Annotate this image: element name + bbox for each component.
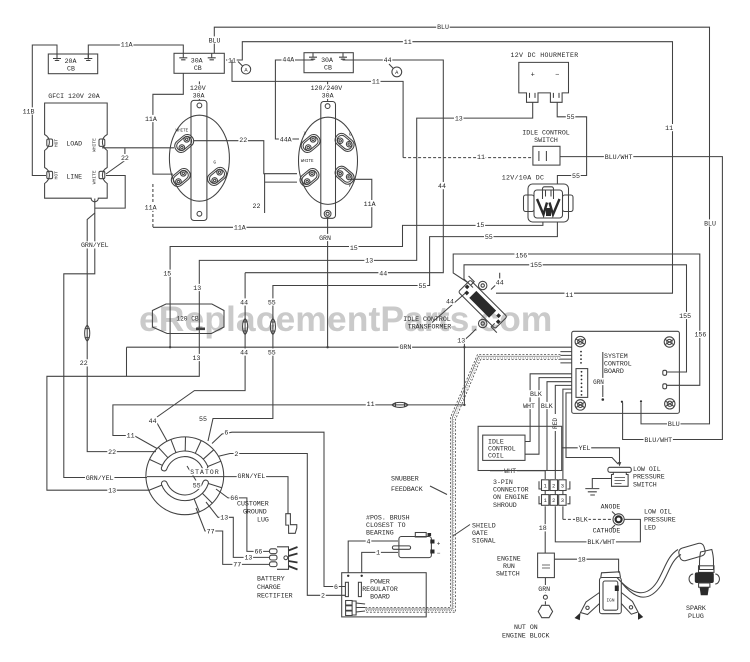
svg-text:BLU: BLU	[209, 37, 221, 44]
label 13	[192, 354, 202, 362]
svg-text:13: 13	[220, 515, 228, 522]
label 66	[229, 494, 239, 502]
svg-text:11: 11	[404, 39, 412, 46]
wire (board to 3-pin connector pin3)	[563, 389, 572, 479]
nut on engine block	[538, 605, 552, 617]
label 22	[120, 154, 130, 162]
wire BLK (3-pin to LED anode)	[563, 506, 613, 519]
wire 44 (transformer left lead)	[432, 293, 466, 323]
wire 55 (hourmeter to 12V/10A DC)	[557, 102, 586, 184]
svg-text:BLU/WHT: BLU/WHT	[605, 154, 633, 161]
svg-text:11A: 11A	[145, 205, 157, 212]
label 44A	[282, 56, 296, 64]
svg-text:55: 55	[268, 299, 276, 306]
svg-text:CHARGE: CHARGE	[257, 584, 281, 591]
wire GRN/YEL (GFCI ground down-left)	[64, 199, 147, 478]
svg-text:30A: 30A	[191, 58, 203, 65]
wire BLK/WHT (3-pin to LED cathode)	[555, 506, 640, 542]
3-pin connector on engine shroud	[539, 480, 570, 506]
wire 22 (GFCI line loop)	[95, 176, 125, 209]
label 55 (stator lead)	[192, 482, 202, 490]
label GRN/YEL	[80, 241, 109, 249]
receptacle 120/240V 30A	[298, 102, 358, 219]
wire 18 (3-pin to engine run switch)	[544, 506, 546, 553]
wire GRN (bus to system control board)	[127, 347, 572, 376]
wire (R2 strap feed)	[327, 81, 329, 101]
ground symbol	[585, 489, 599, 495]
svg-text:13: 13	[193, 285, 201, 292]
hourmeter 12V DC	[519, 62, 569, 102]
label 6	[333, 583, 339, 591]
svg-text:−: −	[437, 550, 441, 557]
svg-text:LED: LED	[644, 525, 656, 532]
svg-text:4: 4	[367, 538, 371, 545]
spark plug wire	[617, 550, 681, 598]
svg-text:55: 55	[572, 173, 580, 180]
wire RED (board to 3-pin connector pin2)	[555, 385, 571, 479]
label BLU/WHT	[604, 153, 633, 161]
svg-text:CONTROL: CONTROL	[488, 446, 516, 453]
svg-text:1: 1	[544, 498, 547, 504]
svg-text:STATOR: STATOR	[190, 469, 220, 476]
label 155	[529, 261, 543, 269]
label CUSTOMER GROUND LUG	[237, 501, 269, 524]
svg-text:13: 13	[365, 258, 373, 265]
svg-text:CONTROL: CONTROL	[604, 361, 632, 368]
svg-text:WHITE: WHITE	[301, 160, 314, 164]
label WHT	[503, 467, 517, 475]
svg-text:18: 18	[539, 525, 547, 532]
svg-text:BLU/WHT: BLU/WHT	[644, 437, 672, 444]
svg-text:WHT: WHT	[504, 468, 516, 475]
svg-text:CLOSEST TO: CLOSEST TO	[366, 522, 406, 529]
receptacle 120V 30A	[169, 100, 229, 220]
label 44	[239, 349, 249, 357]
label BLK	[575, 516, 589, 524]
label 13	[219, 514, 229, 522]
label 156	[694, 331, 708, 339]
customer ground lug	[286, 514, 297, 534]
svg-text:156: 156	[694, 332, 706, 339]
svg-text:IDLE CONTROL: IDLE CONTROL	[522, 130, 570, 137]
svg-text:BLK: BLK	[541, 403, 553, 410]
svg-text:55: 55	[567, 114, 575, 121]
wire 44 (to stator)	[157, 273, 245, 441]
svg-text:SYSTEM: SYSTEM	[604, 353, 628, 360]
label 13	[107, 487, 117, 495]
label SPARK PLUG	[686, 605, 706, 620]
svg-text:55: 55	[199, 416, 207, 423]
svg-text:CATHODE: CATHODE	[593, 528, 621, 535]
svg-text:15: 15	[163, 271, 171, 278]
svg-text:RECTIFIER: RECTIFIER	[257, 593, 293, 600]
wire BLK (board to idle control coil)	[525, 374, 572, 442]
label 15	[163, 270, 173, 278]
svg-text:15: 15	[476, 222, 484, 229]
wire 13 (hourmeter to 120CB to stator)	[47, 102, 533, 490]
label 13	[454, 115, 464, 123]
wire (3-pin connector interconnects)	[545, 491, 563, 495]
label NUT ON ENGINE BLOCK	[502, 624, 550, 640]
stator	[146, 437, 224, 515]
wire YEL (coil box to low oil switch)	[562, 448, 622, 467]
svg-text:11A: 11A	[121, 42, 133, 49]
svg-text:LOW OIL: LOW OIL	[633, 466, 661, 473]
junction dots	[169, 346, 466, 406]
svg-text:IGN: IGN	[607, 599, 615, 604]
wire 22 (R1 white to R2)	[194, 141, 297, 174]
label 22	[79, 359, 89, 367]
label BLU	[208, 36, 222, 44]
svg-text:BOARD: BOARD	[370, 594, 390, 601]
svg-text:+: +	[437, 541, 441, 548]
svg-text:BLK/WHT: BLK/WHT	[587, 539, 615, 546]
svg-text:BATTERY: BATTERY	[257, 576, 285, 583]
svg-text:−: −	[555, 72, 559, 80]
svg-text:12V DC HOURMETER: 12V DC HOURMETER	[510, 52, 578, 59]
svg-text:CB: CB	[67, 66, 75, 73]
svg-text:11: 11	[665, 125, 673, 132]
svg-text:30A: 30A	[193, 93, 205, 100]
svg-text:GFCI 120V 20A: GFCI 120V 20A	[48, 93, 99, 100]
svg-text:22: 22	[121, 155, 129, 162]
label 44	[378, 269, 388, 277]
svg-text:3: 3	[561, 483, 564, 489]
svg-text:BOARD: BOARD	[604, 368, 624, 375]
circuit breaker 20A CB	[48, 54, 97, 74]
engine run switch	[538, 553, 555, 578]
label 11	[227, 56, 237, 64]
label 77	[206, 527, 216, 535]
wire GFCI white-load to R1	[102, 147, 174, 149]
svg-text:ENGINE: ENGINE	[497, 556, 521, 563]
svg-text:3-PIN: 3-PIN	[493, 479, 513, 486]
svg-text:WHITE: WHITE	[176, 129, 189, 133]
wire 11A (R2 Y terminal to bottom run)	[352, 179, 372, 227]
svg-text:LOAD: LOAD	[66, 141, 82, 148]
svg-text:120/240V: 120/240V	[311, 85, 343, 92]
label 11B	[22, 107, 36, 115]
wire 4 (brush to power regulator board)	[348, 541, 398, 573]
label SNUBBER FEEDBACK	[391, 476, 447, 495]
label 120/240V 30A	[310, 84, 343, 99]
wire 44A (CB2 to R2)	[275, 59, 313, 140]
svg-text:11A: 11A	[234, 225, 246, 232]
ignition coil	[575, 572, 644, 621]
svg-text:GRN: GRN	[399, 344, 411, 351]
svg-text:2: 2	[552, 498, 555, 504]
svg-text:ENGINE BLOCK: ENGINE BLOCK	[502, 633, 550, 640]
svg-text:44A: 44A	[282, 57, 294, 64]
svg-text:COIL: COIL	[488, 453, 504, 460]
svg-text:BEARING: BEARING	[366, 530, 394, 537]
svg-text:44: 44	[240, 349, 248, 356]
label 3-PIN CONNECTOR ON ENGINE SHROUD	[493, 479, 529, 509]
ammeter A1	[238, 62, 251, 75]
label 44	[495, 278, 505, 286]
svg-text:X: X	[304, 131, 307, 137]
idle control transformer	[454, 276, 511, 333]
wire 13 (transformer bottom to GRN bus)	[464, 329, 476, 405]
idle control switch	[533, 146, 560, 165]
label 44	[383, 56, 393, 64]
wire 18 (engine run switch to ignition coil)	[554, 559, 618, 573]
svg-text:G: G	[213, 160, 216, 166]
wire 66 (stator to battery charge rectifier)	[216, 489, 270, 551]
wire 11B (20A CB to GFCI LINE)	[32, 45, 57, 176]
label 22	[252, 202, 262, 210]
svg-text:11: 11	[127, 432, 135, 439]
svg-text:22: 22	[239, 137, 247, 144]
label 44	[239, 298, 249, 306]
svg-text:11: 11	[367, 401, 375, 408]
wire 13 (stator to battery charge rectifier)	[206, 502, 270, 557]
wire 22 (GFCI line to node)	[106, 148, 125, 174]
svg-text:SHROUD: SHROUD	[493, 502, 517, 509]
svg-text:18: 18	[578, 557, 586, 564]
wire GRN (engine run switch to nut)	[544, 578, 546, 605]
label 11	[126, 432, 136, 440]
connector (wire 55 inline)	[270, 319, 275, 335]
svg-text:BLU: BLU	[704, 220, 716, 227]
svg-text:WHT: WHT	[523, 403, 535, 410]
svg-text:HOT: HOT	[54, 139, 60, 148]
svg-text:22: 22	[108, 449, 116, 456]
svg-text:PRESSURE: PRESSURE	[633, 474, 665, 481]
label 55	[418, 282, 428, 290]
label 12V DC HOURMETER	[510, 52, 578, 59]
label 18	[577, 556, 587, 564]
svg-text:BLU: BLU	[437, 24, 449, 31]
ammeter A2	[389, 64, 402, 77]
svg-text:77: 77	[207, 528, 215, 535]
svg-text:GRN: GRN	[319, 235, 331, 242]
wire 11 (stator to transformer, inline connector)	[113, 405, 465, 449]
label BLK	[529, 390, 543, 398]
label #POS. BRUSH CLOSEST TO BEARING	[366, 515, 410, 537]
svg-text:1: 1	[376, 550, 380, 557]
label BLK	[540, 402, 554, 410]
svg-text:SWITCH: SWITCH	[496, 571, 520, 578]
svg-text:55: 55	[485, 234, 493, 241]
svg-text:55: 55	[268, 349, 276, 356]
label BLU	[436, 23, 450, 31]
svg-text:15: 15	[350, 245, 358, 252]
label 155	[678, 312, 692, 320]
battery charge rectifier	[270, 547, 298, 570]
connector (wire 22 inline)	[85, 325, 90, 341]
svg-text:PLUG: PLUG	[688, 613, 704, 620]
svg-text:11: 11	[477, 154, 485, 161]
svg-text:66: 66	[254, 549, 262, 556]
svg-text:30A: 30A	[321, 57, 333, 64]
wire 11 (ammeter run to idle control switch)	[232, 60, 533, 158]
label 55	[198, 415, 208, 423]
svg-text:SHIELD: SHIELD	[472, 523, 496, 530]
label STATOR	[189, 468, 220, 476]
svg-text:YEL: YEL	[579, 445, 591, 452]
label 2	[320, 592, 326, 600]
svg-text:FEEDBACK: FEEDBACK	[391, 486, 423, 493]
wire 11A (CB1 to receptacle R1)	[153, 73, 183, 174]
label 44	[445, 298, 455, 306]
shield (dashed boundary)	[365, 355, 560, 613]
wire GRN (R2 ground down)	[327, 218, 329, 348]
svg-text:BLK: BLK	[576, 517, 588, 524]
power regulator board	[342, 573, 427, 617]
label 55	[571, 172, 581, 180]
wire 2 (stator to power regulator board)	[219, 454, 346, 596]
svg-text:GRN: GRN	[538, 586, 550, 593]
svg-text:#POS. BRUSH: #POS. BRUSH	[366, 515, 410, 522]
label GRN	[399, 343, 413, 351]
wire 1 (brush to power regulator board)	[362, 552, 398, 573]
svg-text:RED: RED	[552, 418, 559, 429]
svg-text:SWITCH: SWITCH	[534, 137, 558, 144]
label 2	[234, 450, 240, 458]
receptacle 12V/10A DC	[524, 184, 574, 222]
label POWER REGULATOR BOARD	[362, 579, 398, 601]
svg-text:REGULATOR: REGULATOR	[362, 586, 398, 593]
label LOW OIL PRESSURE LED	[644, 509, 676, 532]
svg-text:44: 44	[496, 279, 504, 286]
label 55	[484, 233, 494, 241]
connector (wire 44 inline)	[243, 319, 248, 335]
brush assembly	[392, 533, 440, 558]
label GFCI 120V 20A	[48, 93, 99, 100]
svg-text:12V/10A DC: 12V/10A DC	[502, 175, 545, 182]
wire 44 (CB2 down to 44 run)	[245, 59, 443, 273]
svg-text:NUT ON: NUT ON	[514, 624, 538, 631]
label 1	[375, 549, 381, 557]
svg-text:44: 44	[438, 183, 446, 190]
svg-text:156: 156	[515, 253, 527, 260]
svg-text:44: 44	[379, 270, 387, 277]
svg-text:44: 44	[149, 418, 157, 425]
svg-text:GRN: GRN	[593, 379, 604, 386]
svg-text:13: 13	[455, 115, 463, 122]
wire 11 (CB1 to idle control transformer)	[226, 42, 673, 294]
connector (wire 11 inline)	[392, 402, 408, 407]
label RED	[551, 414, 559, 431]
label 22	[238, 136, 248, 144]
svg-text:13: 13	[244, 555, 252, 562]
wire 11A top (20A CB to 30A CB1)	[88, 45, 183, 60]
svg-text:IDLE: IDLE	[488, 439, 504, 446]
label 11A	[144, 204, 158, 212]
label 6	[224, 429, 230, 437]
svg-text:SPARK: SPARK	[686, 605, 706, 612]
label 44A	[279, 135, 293, 143]
wire (switch to ground)	[592, 479, 611, 489]
svg-text:6: 6	[224, 430, 228, 437]
svg-text:LUG: LUG	[257, 517, 269, 524]
label ENGINE RUN SWITCH	[496, 556, 521, 578]
low oil pressure switch	[608, 467, 631, 486]
label 77	[232, 561, 242, 569]
svg-text:HOT: HOT	[54, 171, 60, 180]
svg-text:SIGNAL: SIGNAL	[472, 538, 496, 545]
spark plug boot	[678, 542, 714, 569]
wire 77 (stator to battery charge rectifier)	[196, 508, 270, 564]
svg-text:PRESSURE: PRESSURE	[644, 517, 676, 524]
wire board pins (top-left)	[560, 352, 571, 363]
wire GRN/YEL (through stator to ground lug)	[147, 477, 288, 514]
svg-text:Y: Y	[348, 183, 351, 189]
label GRN	[537, 585, 551, 593]
svg-text:G: G	[349, 131, 352, 137]
label 13	[456, 337, 466, 345]
wire 22 (down left side to stator)	[87, 213, 156, 452]
svg-text:155: 155	[530, 262, 542, 269]
svg-text:2: 2	[321, 593, 325, 600]
wire BLU (CB1 to system control board)	[214, 27, 709, 424]
svg-text:GROUND: GROUND	[243, 509, 267, 516]
label 44	[148, 417, 158, 425]
label WHT	[522, 402, 536, 410]
label 11	[371, 78, 381, 86]
wire 44 (transformer right lead)	[491, 273, 500, 290]
label GRN/YEL	[237, 472, 266, 480]
label YEL	[578, 444, 592, 452]
label BLU/WHT	[644, 436, 673, 444]
svg-text:11A: 11A	[364, 201, 376, 208]
svg-text:2: 2	[234, 451, 238, 458]
svg-text:13: 13	[193, 355, 201, 362]
svg-text:1: 1	[544, 483, 547, 489]
watermark	[139, 299, 552, 339]
label 13	[192, 284, 202, 292]
svg-text:WHITE: WHITE	[91, 138, 97, 152]
svg-text:SWITCH: SWITCH	[633, 481, 657, 488]
svg-text:6: 6	[334, 584, 338, 591]
label 15	[349, 244, 359, 252]
svg-text:RUN: RUN	[503, 563, 515, 570]
wire 11A (R1 lower to bottom run)	[153, 184, 372, 227]
label BLU	[703, 219, 717, 227]
svg-text:120 CB: 120 CB	[176, 316, 199, 323]
label 11A	[233, 224, 247, 232]
label 13	[364, 257, 374, 265]
svg-text:11A: 11A	[145, 116, 157, 123]
label 156	[515, 252, 529, 260]
svg-text:155: 155	[679, 313, 691, 320]
spark plug	[689, 566, 719, 595]
wire 55 (12V/10A to stator)	[208, 222, 557, 441]
label 55	[267, 349, 277, 357]
svg-text:44A: 44A	[280, 136, 292, 143]
label 12V/10A DC	[502, 175, 545, 182]
label 11A	[363, 200, 377, 208]
svg-text:13: 13	[108, 488, 116, 495]
svg-text:LOW OIL: LOW OIL	[644, 509, 672, 516]
svg-text:GRN/YEL: GRN/YEL	[238, 473, 266, 480]
svg-text:TRANSFORMER: TRANSFORMER	[408, 324, 452, 331]
svg-text:44: 44	[446, 299, 454, 306]
svg-text:ON ENGINE: ON ENGINE	[493, 494, 529, 501]
svg-text:30A: 30A	[322, 93, 334, 100]
label 4	[366, 537, 372, 545]
label 11A	[120, 41, 133, 49]
svg-text:11: 11	[565, 292, 573, 299]
system control board	[572, 331, 680, 413]
label BLK/WHT	[587, 538, 616, 546]
svg-text:CB: CB	[194, 65, 202, 72]
label 13	[244, 554, 254, 562]
svg-text:IDLE CONTROL: IDLE CONTROL	[403, 316, 451, 323]
label ANODE	[601, 504, 621, 516]
svg-text:CONNECTOR: CONNECTOR	[493, 487, 529, 494]
